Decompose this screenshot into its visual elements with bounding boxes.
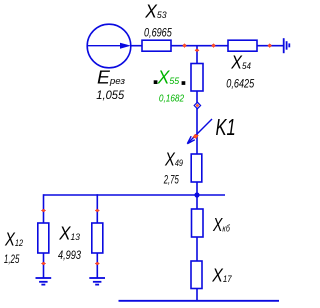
wire: X49 to node B [196,182,198,195]
EMF source Eрез circle [87,24,131,68]
svg-text:1,25: 1,25 [4,254,20,266]
wire: X54 to ground [257,45,284,47]
node B junction dot [194,192,199,197]
svg-text:4,993: 4,993 [58,250,81,262]
wire: Xкб to X17 [196,237,198,261]
current arrow tick 4 [195,49,199,52]
ground (top right, horizontal) [284,38,290,53]
resistor X55 [191,64,203,92]
wire: X17 to bottom bus [196,289,198,302]
EMF source arrow [88,43,132,49]
svg-text:X54: X54 [230,52,250,72]
resistor X17 [191,261,202,289]
current arrow tick 8 [95,262,99,265]
connection point marker [194,102,200,109]
resistor X49 [191,154,202,182]
svg-text:X13: X13 [58,224,80,244]
resistor X12 [38,223,49,253]
node A vertical stub to X55 [196,46,198,64]
current arrow tick 3 [268,44,272,48]
wire drop to X12 [43,194,45,223]
current arrow tick 5 [41,209,45,212]
wire: X12 to ground [43,253,45,278]
svg-text:X49: X49 [164,149,183,169]
svg-text:Eрез: Eрез [97,68,125,88]
svg-text:X17: X17 [211,266,232,286]
wire drop to X13 [96,194,98,223]
svg-text:X53: X53 [144,2,166,22]
current arrow tick 1 [183,44,187,48]
bottom bus bar [119,300,280,302]
current arrow tick 2 [212,44,216,48]
selection handle right [182,81,186,85]
resistor X54 [228,40,257,51]
svg-text:X55: X55 [157,68,181,88]
horizontal bus wire [44,194,226,196]
resistor X13 [92,223,103,253]
svg-text:1,055: 1,055 [96,90,124,102]
wire: X55 to connection marker [196,91,198,104]
svg-text:0,6425: 0,6425 [226,79,254,91]
svg-text:K1: K1 [216,115,236,140]
wire: source to resistor X53 [131,45,142,47]
wire: X13 to ground [96,253,98,278]
fault red tick [193,134,199,138]
selection handle left [154,80,158,84]
svg-text:Xкб: Xкб [212,215,230,235]
resistor X53 [142,40,171,51]
current arrow tick 6 [41,262,45,265]
svg-text:2,75: 2,75 [163,174,179,186]
resistor Xкб [192,209,204,237]
svg-text:0,6965: 0,6965 [144,28,172,40]
wire: node B to Xкб [196,195,198,209]
ground below X12 [36,278,52,285]
svg-text:0,1682: 0,1682 [159,93,184,105]
current arrow tick 7 [95,209,99,212]
ground below X13 [89,278,105,285]
fault arrow K1 [187,119,212,144]
wire: marker to X49 [196,108,198,155]
svg-text:X12: X12 [4,230,23,250]
wire: X53 to X54 through node A [171,45,228,47]
